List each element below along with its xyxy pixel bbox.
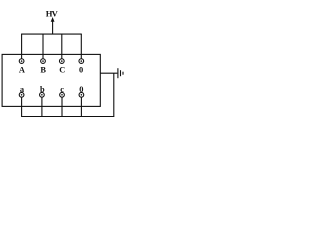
terminal b [40, 92, 45, 97]
ground stub wire [100, 72, 117, 74]
wire drop neutral 0 [80, 34, 82, 59]
wire drop phase B [42, 34, 44, 59]
wire down from c [61, 97, 63, 116]
ground riser wire [113, 73, 115, 116]
terminal 0 (bottom) [79, 92, 84, 97]
terminal c [60, 92, 65, 97]
earth ground [117, 68, 119, 78]
terminal a [19, 92, 24, 97]
terminal A [19, 59, 24, 64]
top bus wire [21, 33, 82, 35]
enclosure box [2, 54, 100, 106]
terminal C [59, 59, 64, 64]
wire drop phase A [21, 34, 23, 59]
svg-text:C: C [59, 65, 65, 74]
wire down from b [41, 97, 43, 116]
wire down from 0 [80, 97, 82, 116]
terminal B [41, 59, 46, 64]
bottom bus wire [21, 116, 114, 118]
svg-text:B: B [40, 65, 46, 74]
HV feed arrow [52, 21, 54, 35]
svg-text:A: A [19, 65, 25, 74]
svg-text:0: 0 [79, 65, 83, 74]
svg-text:HV: HV [46, 9, 59, 19]
wire down from a [21, 97, 23, 116]
terminal 0 (top) [79, 59, 84, 64]
wire drop phase C [61, 34, 63, 59]
